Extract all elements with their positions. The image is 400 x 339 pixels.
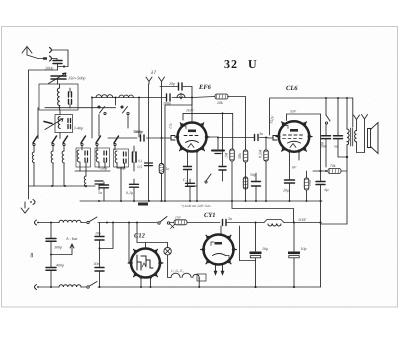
svg-text:C₁ G₁ E₁: C₁ G₁ E₁ [171, 269, 184, 273]
svg-text:32 U: 32 U [224, 57, 258, 71]
svg-text:150: 150 [308, 180, 312, 186]
svg-text:6μ: 6μ [325, 187, 329, 192]
svg-text:EF6: EF6 [198, 84, 212, 91]
svg-text:150+500p: 150+500p [68, 76, 85, 81]
svg-text:300p: 300p [54, 245, 62, 250]
svg-text:10n: 10n [95, 231, 101, 236]
svg-text:20p: 20p [169, 81, 175, 86]
svg-text:55V: 55V [290, 110, 297, 114]
svg-text:*) heißt mit 220V Netz: *) heißt mit 220V Netz [181, 204, 211, 208]
svg-text:1M: 1M [224, 152, 229, 158]
svg-text:3n: 3n [228, 216, 232, 221]
svg-text:6V: 6V [292, 166, 297, 170]
svg-text:A - bat: A - bat [65, 236, 78, 241]
svg-text:0,1μ: 0,1μ [126, 190, 133, 195]
svg-text:50k: 50k [237, 153, 242, 159]
svg-text:50p: 50p [250, 172, 256, 177]
svg-text:400p: 400p [56, 263, 64, 268]
svg-text:5000p: 5000p [133, 129, 143, 134]
svg-text:10μ: 10μ [262, 246, 268, 251]
svg-text:116V: 116V [298, 217, 307, 222]
svg-text:20μ: 20μ [283, 188, 289, 193]
svg-text:≃: ≃ [28, 252, 36, 258]
svg-text:5n: 5n [334, 145, 338, 149]
svg-text:70k: 70k [330, 164, 336, 168]
svg-text:CL6: CL6 [286, 85, 298, 92]
svg-text:CY1: CY1 [204, 212, 216, 219]
svg-text:110V: 110V [186, 109, 194, 113]
svg-text:C₁: C₁ [183, 177, 188, 182]
svg-text:10μ: 10μ [301, 246, 307, 251]
svg-text:0,5: 0,5 [138, 165, 143, 169]
svg-text:1n: 1n [166, 167, 170, 171]
svg-text:20k: 20k [217, 100, 223, 105]
svg-text:C12: C12 [134, 233, 146, 240]
svg-text:3n: 3n [259, 131, 263, 136]
svg-text:5n: 5n [98, 190, 102, 195]
svg-text:30n: 30n [94, 261, 100, 266]
svg-text:0,5M: 0,5M [258, 149, 263, 158]
svg-text:150: 150 [175, 216, 181, 220]
svg-text:λ?: λ? [150, 70, 156, 76]
svg-text:50n: 50n [321, 145, 327, 149]
svg-text:0,1: 0,1 [138, 159, 143, 163]
svg-text:3-40p: 3-40p [74, 126, 84, 131]
